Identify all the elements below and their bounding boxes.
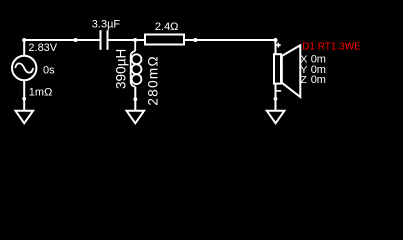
node source-ground [22, 97, 26, 101]
ground middle [127, 111, 145, 124]
wire left vertical (source branch) [23, 40, 25, 56]
node corner left [22, 38, 26, 42]
wire resistor to speaker corner [185, 39, 276, 41]
svg-text:280mΩ: 280mΩ [146, 56, 161, 105]
resistor R1 [145, 35, 184, 45]
svg-text:Z: Z [300, 74, 307, 86]
node inductor tap [133, 38, 137, 42]
wire capacitor to resistor [109, 39, 145, 41]
svg-text:390µH: 390µH [113, 49, 128, 89]
svg-text:0s: 0s [43, 64, 55, 76]
wire main horizontal segment source to capacitor [24, 39, 99, 41]
svg-text:3.3µF: 3.3µF [92, 19, 121, 31]
svg-text:2.83V: 2.83V [28, 42, 57, 54]
node after resistor [193, 38, 197, 42]
wire right vertical (speaker branch) [275, 40, 277, 55]
capacitor C1 [100, 30, 109, 50]
svg-text:0m: 0m [311, 74, 326, 86]
voltage source V1 [12, 56, 36, 80]
svg-text:2.4Ω: 2.4Ω [155, 21, 179, 33]
node speaker-ground [274, 97, 278, 101]
speaker D1 [274, 45, 300, 97]
node A on top wire [74, 38, 78, 42]
node inductor-ground [133, 97, 137, 101]
plus sign [276, 43, 281, 48]
svg-text:1mΩ: 1mΩ [29, 87, 53, 99]
ground left [16, 111, 34, 124]
svg-text:D1 RT1.3WE: D1 RT1.3WE [302, 42, 361, 53]
ground right [267, 111, 285, 124]
inductor L1 [131, 40, 142, 110]
node corner right [274, 38, 278, 42]
minus sign [276, 90, 281, 92]
